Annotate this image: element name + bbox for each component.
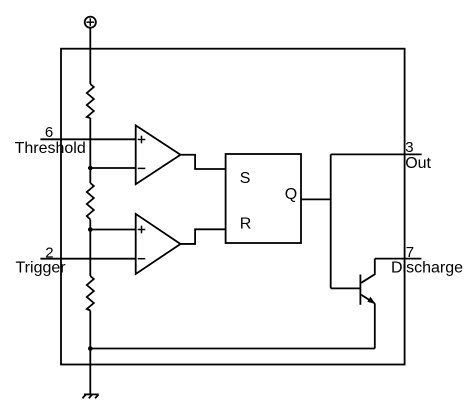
- wire node B to R3: [89, 230, 91, 277]
- power supply VCC terminal: [85, 17, 96, 28]
- transistor Q1 base bar: [359, 275, 361, 305]
- svg-text:6: 6: [45, 124, 53, 141]
- comparator U2 trigger: [136, 214, 181, 274]
- Q1 emitter arrowhead: [367, 297, 375, 304]
- wire R2 to node B: [89, 220, 91, 230]
- svg-text:Discharge: Discharge: [391, 259, 463, 276]
- pin 7 discharge wire: [375, 258, 422, 260]
- pin 3 out wire: [331, 153, 422, 155]
- wire bottom return: [90, 348, 375, 350]
- U1 minus input mark: [138, 167, 146, 169]
- node A junction dot: [88, 166, 93, 171]
- Q1 collector: [361, 259, 375, 283]
- svg-text:Q: Q: [285, 186, 297, 203]
- wire node B to comparator plus: [90, 229, 135, 231]
- wire R2 section: [89, 168, 91, 183]
- wire output trunk: [330, 154, 332, 288]
- resistor R3: [87, 276, 94, 311]
- wire R1 to node A: [89, 118, 91, 168]
- wire VCC to R1: [89, 28, 91, 84]
- IC boundary box: [61, 49, 405, 365]
- pin 6 threshold wire: [40, 138, 135, 140]
- wire ground lead: [89, 349, 91, 395]
- wire U1 output to S input: [181, 155, 226, 169]
- Q1 emitter: [361, 295, 374, 304]
- node B junction dot: [88, 227, 93, 232]
- svg-text:S: S: [240, 170, 251, 187]
- svg-text:R: R: [240, 215, 252, 232]
- node GND junction dot: [88, 346, 93, 351]
- resistor R2: [87, 183, 94, 220]
- wire emitter down: [374, 303, 376, 348]
- svg-text:Threshold: Threshold: [15, 140, 86, 157]
- resistor R1: [87, 84, 94, 118]
- wire node A to comparator minus: [90, 167, 135, 169]
- svg-text:Trigger: Trigger: [16, 259, 67, 276]
- U2 plus input mark: [138, 226, 146, 234]
- wire trunk to Q1 base: [331, 287, 361, 289]
- pin 2 trigger wire: [40, 258, 135, 260]
- U1 plus input mark: [138, 136, 146, 144]
- comparator U1 threshold: [136, 125, 181, 184]
- svg-text:3: 3: [405, 139, 413, 156]
- wire U2 output to R input: [181, 229, 226, 244]
- ground symbol: [83, 394, 99, 398]
- SR latch U3: [226, 154, 301, 243]
- svg-text:Out: Out: [405, 155, 431, 172]
- wire R3 to node GNDint: [89, 311, 91, 349]
- U2 minus input mark: [138, 258, 146, 260]
- wire Q output: [301, 198, 331, 200]
